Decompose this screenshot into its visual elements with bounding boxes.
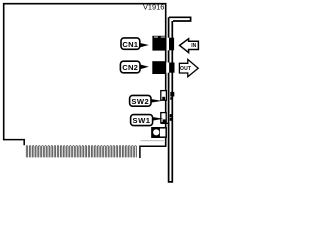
- connector CN1 jack through bracket: [169, 38, 174, 51]
- switch SW1 actuator blob: [163, 119, 166, 122]
- connector CN2 jack through bracket: [169, 63, 174, 73]
- svg-text:SW2: SW2: [131, 97, 149, 106]
- arrow IN: [180, 39, 199, 53]
- volume wheel circle: [153, 129, 159, 135]
- svg-text:IN: IN: [191, 43, 196, 49]
- svg-text:CN1: CN1: [122, 40, 138, 49]
- label CN1 pointer: [139, 43, 149, 48]
- volume wheel housing: [152, 128, 166, 137]
- bracket strip: [169, 17, 173, 182]
- svg-text:SW1: SW1: [133, 116, 151, 125]
- label CN1 box: [121, 38, 140, 49]
- arrow OUT: [179, 59, 198, 76]
- bracket top tab: [169, 17, 191, 21]
- switch SW2 bracket-side button: [170, 92, 174, 97]
- switch SW1 bracket-side tick: [170, 118, 173, 121]
- label SW2 box: [130, 95, 151, 106]
- switch SW1 base line: [161, 122, 170, 124]
- bracket hole for CN2 jack: [166, 63, 169, 73]
- switch SW1 bracket-side button: [170, 114, 173, 117]
- board bottom-left edge: [3, 140, 24, 146]
- label SW1 box: [131, 115, 153, 126]
- svg-text:V1916: V1916: [143, 3, 164, 12]
- svg-text:OUT: OUT: [180, 66, 191, 72]
- label CN2 pointer: [140, 64, 149, 69]
- label SW1 pointer: [152, 117, 163, 121]
- label CN2 box: [120, 61, 140, 73]
- switch SW2 actuator blob: [162, 97, 165, 100]
- board bottom-right edge: [140, 146, 167, 158]
- svg-text:CN2: CN2: [122, 63, 138, 72]
- connector CN1 highlight marks: [154, 36, 158, 39]
- board outline: [4, 4, 166, 147]
- switch SW1 body: [161, 113, 166, 123]
- edge connector fingers: [26, 146, 136, 158]
- switch SW2 bracket-side tick: [170, 97, 173, 100]
- faint shaft line: [141, 140, 165, 142]
- connector CN1 body: [152, 36, 166, 51]
- label SW2 pointer: [151, 99, 162, 103]
- switch SW2 body: [161, 91, 167, 101]
- volume wheel black block: [151, 127, 160, 138]
- bracket hole for CN1 jack: [167, 38, 170, 51]
- connector CN2 body: [152, 61, 166, 74]
